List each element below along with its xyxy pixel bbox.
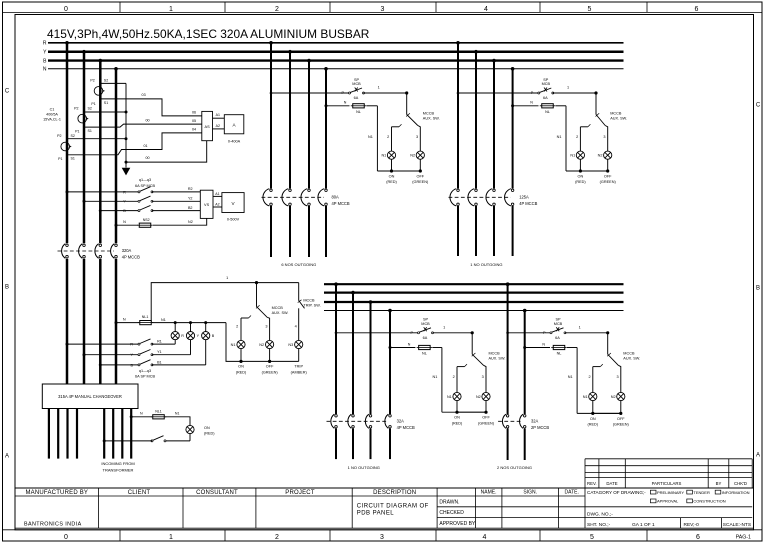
svg-text:CONSTRUCTION: CONSTRUCTION bbox=[693, 499, 725, 504]
svg-text:2: 2 bbox=[275, 534, 279, 541]
breaker pole bbox=[301, 189, 310, 206]
svg-text:0-500V: 0-500V bbox=[227, 218, 240, 222]
sht no row bbox=[680, 518, 682, 529]
N1 return vertical changeover bbox=[226, 323, 299, 362]
feeder verticals below 320A MCCB bbox=[66, 259, 69, 384]
feeder B vertical bbox=[99, 59, 103, 63]
svg-text:NL: NL bbox=[545, 110, 550, 114]
svg-text:0: 0 bbox=[64, 6, 68, 13]
svg-text:1: 1 bbox=[579, 325, 581, 329]
bottom band ticks bbox=[119, 530, 121, 541]
feeder N vertical bbox=[114, 67, 118, 71]
lamp N2 OFF GREEN changeover bbox=[266, 340, 274, 348]
top reference band line bbox=[3, 11, 763, 13]
svg-text:MCCB: MCCB bbox=[623, 351, 635, 355]
svg-text:(GREEN): (GREEN) bbox=[262, 370, 279, 374]
svg-text:DRAWN.: DRAWN. bbox=[439, 500, 459, 506]
svg-text:3: 3 bbox=[416, 135, 418, 139]
wire A2 bbox=[213, 128, 225, 130]
branch3 vertical 3 bbox=[369, 300, 373, 304]
breaker trip bar (dashed) bbox=[262, 196, 325, 198]
svg-text:PROJECT: PROJECT bbox=[285, 490, 315, 496]
svg-text:N2: N2 bbox=[476, 395, 481, 399]
lamp N2 OFF GREEN branch2 bbox=[604, 151, 612, 159]
svg-text:6 NOS OUTGOING: 6 NOS OUTGOING bbox=[281, 262, 316, 267]
svg-text:1: 1 bbox=[378, 86, 380, 90]
svg-text:Y2: Y2 bbox=[188, 197, 193, 201]
svg-text:N2: N2 bbox=[598, 154, 603, 158]
svg-text:6: 6 bbox=[696, 534, 700, 541]
wire A1 bbox=[213, 117, 225, 119]
svg-text:B: B bbox=[123, 209, 126, 213]
svg-text:P1: P1 bbox=[91, 102, 95, 106]
svg-text:DWG. NO.;-: DWG. NO.;- bbox=[587, 512, 613, 518]
svg-text:ON: ON bbox=[204, 426, 210, 430]
svg-text:N2: N2 bbox=[259, 343, 264, 347]
CT B S2 wire bbox=[100, 82, 126, 84]
breaker pole bbox=[111, 244, 118, 259]
svg-text:ON: ON bbox=[238, 365, 244, 369]
CT on B phase bbox=[94, 87, 104, 96]
aux contact 2 branch1 bbox=[392, 126, 400, 128]
branch2 Y vertical bbox=[474, 50, 478, 54]
branch2 N vertical bbox=[511, 67, 515, 71]
svg-text:C1: C1 bbox=[50, 108, 55, 112]
svg-text:C: C bbox=[5, 89, 10, 95]
svg-text:3: 3 bbox=[482, 375, 484, 379]
lamp N1 ON RED branch3 bbox=[453, 392, 461, 400]
branch1 verticals below MCCB bbox=[270, 206, 272, 257]
svg-text:A2: A2 bbox=[216, 124, 220, 128]
svg-text:1: 1 bbox=[567, 86, 569, 90]
wire 00 common to ammeter selector bbox=[125, 161, 128, 164]
wire 03/06 to ammeter selector bbox=[100, 99, 202, 116]
wire A1 to voltmeter bbox=[213, 195, 222, 197]
svg-text:BY: BY bbox=[716, 481, 722, 486]
fuse NL branch1 bbox=[351, 104, 367, 108]
svg-text:3: 3 bbox=[380, 534, 384, 541]
svg-text:NS2: NS2 bbox=[143, 218, 150, 222]
svg-text:APPROVED BY: APPROVED BY bbox=[439, 521, 476, 527]
svg-text:AS: AS bbox=[205, 125, 211, 129]
svg-text:6A: 6A bbox=[543, 96, 548, 100]
svg-text:NL1: NL1 bbox=[142, 315, 149, 319]
title block bottom line bbox=[15, 527, 754, 529]
lamp return wires branch1 bbox=[391, 159, 393, 171]
branch2 verticals below MCCB bbox=[457, 206, 459, 256]
svg-text:A: A bbox=[756, 453, 760, 459]
branch1 N vertical bbox=[324, 67, 328, 71]
voltmeter R wire and switch bbox=[66, 190, 69, 193]
svg-text:00: 00 bbox=[145, 156, 149, 160]
breaker pole bbox=[282, 189, 291, 206]
svg-text:CONSULTANT: CONSULTANT bbox=[196, 490, 238, 496]
svg-text:1: 1 bbox=[169, 6, 173, 13]
changeover lamp return wires bbox=[240, 349, 242, 362]
busbar N bbox=[48, 68, 624, 70]
R phase tap wire with switch bbox=[66, 343, 69, 346]
svg-text:MCCB: MCCB bbox=[610, 112, 622, 116]
svg-text:TRIP. SW.: TRIP. SW. bbox=[303, 304, 320, 308]
svg-text:NL: NL bbox=[422, 352, 427, 356]
lamp return wires branch2 bbox=[579, 159, 581, 171]
svg-text:N2: N2 bbox=[611, 395, 616, 399]
svg-text:CLIENT: CLIENT bbox=[128, 490, 151, 496]
svg-text:P2: P2 bbox=[90, 79, 94, 83]
aux contact 2 branch2 bbox=[580, 126, 588, 128]
aux contact 2 branch3 bbox=[457, 366, 465, 368]
315A 4P manual changeover box bbox=[42, 384, 138, 409]
svg-text:4P MCCB: 4P MCCB bbox=[122, 255, 140, 260]
breaker pole bbox=[385, 414, 391, 428]
branch3 verticals below MCCB bbox=[335, 429, 337, 460]
svg-text:(RED): (RED) bbox=[386, 180, 397, 184]
svg-text:5: 5 bbox=[588, 6, 592, 13]
branch3 vertical 2 bbox=[351, 291, 355, 295]
svg-text:06: 06 bbox=[192, 111, 196, 115]
branch1 Y vertical bbox=[288, 50, 292, 54]
drawn checked approved rows bbox=[437, 506, 752, 508]
svg-text:(GREEN): (GREEN) bbox=[412, 180, 429, 184]
feeder R vertical bbox=[65, 41, 69, 45]
svg-text:SIGN.: SIGN. bbox=[523, 490, 537, 496]
svg-text:VS: VS bbox=[204, 203, 210, 207]
wire fuse to return branch4 bbox=[567, 347, 577, 349]
svg-text:B: B bbox=[5, 285, 9, 291]
Y phase tap wire with switch bbox=[83, 353, 86, 356]
svg-text:PAG-1: PAG-1 bbox=[736, 535, 751, 541]
ammeter A bbox=[224, 115, 244, 134]
svg-text:BANTRONICS INDIA: BANTRONICS INDIA bbox=[24, 522, 82, 528]
svg-text:R1: R1 bbox=[157, 340, 162, 344]
breaker pole bbox=[505, 189, 514, 206]
title block top line bbox=[15, 487, 754, 489]
revision table bbox=[585, 458, 752, 460]
lamp N2 OFF GREEN branch4 bbox=[617, 392, 625, 400]
breaker pole bbox=[348, 414, 354, 428]
wire P phase tap branch2 bbox=[457, 92, 460, 95]
breaker trip bar (dashed) bbox=[327, 420, 389, 422]
wire 00/05 to ammeter selector bbox=[84, 124, 202, 127]
breaker pole bbox=[331, 414, 337, 428]
svg-text:6A SP MCB: 6A SP MCB bbox=[135, 184, 155, 188]
svg-text:0: 0 bbox=[64, 534, 68, 541]
svg-text:6: 6 bbox=[695, 6, 699, 13]
svg-text:NL1: NL1 bbox=[155, 409, 162, 413]
breaker pole bbox=[263, 189, 272, 206]
svg-text:125A: 125A bbox=[519, 195, 529, 200]
svg-text:1 NO OUTGOING: 1 NO OUTGOING bbox=[348, 465, 380, 470]
svg-text:N: N bbox=[43, 67, 47, 73]
svg-text:N2: N2 bbox=[188, 220, 193, 224]
wire N tap branch2 bbox=[511, 104, 514, 107]
svg-text:S2: S2 bbox=[71, 134, 75, 138]
svg-text:32A: 32A bbox=[397, 419, 405, 424]
svg-text:CHECKED: CHECKED bbox=[439, 510, 464, 516]
svg-text:4: 4 bbox=[484, 6, 488, 13]
svg-text:04: 04 bbox=[192, 128, 196, 132]
svg-text:2: 2 bbox=[576, 135, 578, 139]
svg-text:PARTICULARS: PARTICULARS bbox=[652, 481, 682, 486]
svg-text:DATE.: DATE. bbox=[565, 490, 579, 496]
svg-text:4P MCCB: 4P MCCB bbox=[519, 201, 537, 206]
svg-text:OFF: OFF bbox=[482, 416, 490, 420]
svg-text:AUX. SW.: AUX. SW. bbox=[489, 356, 506, 360]
svg-text:q1—q3: q1—q3 bbox=[139, 369, 151, 373]
svg-text:15VA,CL-1: 15VA,CL-1 bbox=[43, 118, 61, 122]
svg-text:CIRCUIT DIAGRAM OF: CIRCUIT DIAGRAM OF bbox=[357, 503, 429, 509]
second busbar line4 bbox=[324, 310, 624, 312]
bottom reference band line bbox=[3, 529, 763, 531]
svg-text:P1: P1 bbox=[58, 157, 62, 161]
changeover source verticals group1 bbox=[48, 409, 50, 459]
fuse NL branch3 bbox=[417, 345, 433, 349]
svg-text:N: N bbox=[123, 317, 126, 321]
svg-text:OFF: OFF bbox=[417, 175, 425, 179]
svg-text:(GREEN): (GREEN) bbox=[600, 180, 617, 184]
svg-text:2 NOS OUTGOING: 2 NOS OUTGOING bbox=[497, 465, 532, 470]
wire fuse to return branch3 bbox=[432, 347, 442, 349]
svg-text:32A: 32A bbox=[531, 419, 539, 424]
svg-text:N1: N1 bbox=[583, 395, 588, 399]
svg-text:1 NO OUTGOING: 1 NO OUTGOING bbox=[470, 262, 502, 267]
svg-text:N1: N1 bbox=[557, 135, 562, 139]
svg-text:C: C bbox=[756, 103, 761, 109]
svg-text:1: 1 bbox=[169, 534, 173, 541]
svg-text:R: R bbox=[181, 334, 184, 338]
breaker pole bbox=[520, 414, 526, 428]
svg-text:3: 3 bbox=[265, 325, 267, 329]
MCCB trip switch changeover bbox=[298, 283, 300, 301]
SP MCB switch branch4 bbox=[550, 327, 566, 334]
svg-text:N1: N1 bbox=[433, 375, 438, 379]
svg-text:2: 2 bbox=[236, 325, 238, 329]
branch4 vertical 1 bbox=[506, 282, 510, 286]
svg-text:AUX. SW.: AUX. SW. bbox=[610, 117, 627, 121]
breaker pole bbox=[95, 244, 102, 259]
svg-text:1: 1 bbox=[226, 276, 228, 280]
svg-text:A2: A2 bbox=[215, 202, 219, 206]
svg-text:MANUFACTURED BY: MANUFACTURED BY bbox=[25, 490, 88, 496]
svg-text:CHK'D: CHK'D bbox=[734, 481, 747, 486]
svg-text:P2: P2 bbox=[57, 134, 61, 138]
transformer pilot return wire with switch bbox=[189, 433, 191, 441]
lamp N2 OFF GREEN branch3 bbox=[482, 392, 490, 400]
svg-text:Y: Y bbox=[123, 200, 126, 204]
svg-text:(GREEN): (GREEN) bbox=[613, 423, 630, 427]
svg-text:APPROVAL: APPROVAL bbox=[657, 499, 679, 504]
svg-text:400/5A: 400/5A bbox=[46, 113, 58, 117]
svg-text:N: N bbox=[140, 412, 143, 416]
svg-text:4P MCCB: 4P MCCB bbox=[397, 425, 415, 430]
lamp return wires branch3 bbox=[456, 401, 458, 413]
svg-text:6A: 6A bbox=[423, 336, 428, 340]
svg-text:R2: R2 bbox=[188, 187, 193, 191]
voltmeter Y wire and switch bbox=[83, 200, 86, 203]
branch2 R vertical bbox=[456, 41, 460, 45]
svg-text:P1: P1 bbox=[75, 130, 79, 134]
svg-text:MCCB: MCCB bbox=[423, 112, 435, 116]
svg-text:MCB: MCB bbox=[542, 82, 551, 86]
svg-text:315A 4P MANUAL CHANGEOVER: 315A 4P MANUAL CHANGEOVER bbox=[58, 394, 122, 399]
breaker trip bar (dashed) bbox=[498, 420, 523, 422]
svg-text:AUX. SW.: AUX. SW. bbox=[623, 356, 640, 360]
MCCB aux switch branch1 bbox=[406, 93, 408, 115]
CT on R phase bbox=[61, 142, 71, 151]
svg-text:2: 2 bbox=[453, 375, 455, 379]
lamp N3 TRIP AMBER changeover bbox=[295, 340, 303, 348]
wire node 1 branch1 bbox=[364, 92, 407, 94]
phase indicating lamp B bbox=[204, 321, 207, 324]
second busbar line2 bbox=[324, 292, 624, 294]
phase indicating lamp Y bbox=[189, 321, 192, 324]
wire fuse to return branch2 bbox=[556, 105, 567, 107]
svg-text:NL: NL bbox=[557, 352, 562, 356]
voltmeter selector switch VS bbox=[200, 190, 213, 218]
svg-text:DESCRIPTION: DESCRIPTION bbox=[373, 490, 416, 496]
svg-text:MCB: MCB bbox=[352, 82, 361, 86]
voltmeter B wire and switch bbox=[99, 209, 102, 212]
svg-text:4: 4 bbox=[483, 534, 487, 541]
breaker pole bbox=[318, 189, 327, 206]
svg-text:N3: N3 bbox=[288, 343, 293, 347]
svg-text:Y1: Y1 bbox=[157, 350, 162, 354]
svg-text:SCALE:-NTS: SCALE:-NTS bbox=[723, 522, 751, 528]
wire node 1 branch3 bbox=[433, 332, 473, 334]
second busbar line1 bbox=[324, 283, 624, 285]
voltmeter V bbox=[222, 193, 244, 213]
svg-text:(RED): (RED) bbox=[236, 370, 247, 374]
MCCB aux switch changeover bbox=[256, 283, 258, 307]
svg-text:INFORMATION: INFORMATION bbox=[722, 490, 750, 495]
svg-text:B2: B2 bbox=[188, 206, 193, 210]
svg-text:AUX. SW.: AUX. SW. bbox=[272, 311, 289, 315]
svg-text:OFF: OFF bbox=[617, 417, 625, 421]
breaker pole bbox=[365, 414, 371, 428]
svg-text:N1: N1 bbox=[231, 343, 236, 347]
wire P phase tap branch1 bbox=[270, 92, 273, 95]
CT common vertical bbox=[125, 83, 127, 167]
svg-text:S2: S2 bbox=[104, 79, 108, 83]
breaker trip bar (dashed) bbox=[58, 250, 115, 252]
svg-text:N: N bbox=[344, 101, 347, 105]
svg-text:N: N bbox=[123, 220, 126, 224]
breaker pole bbox=[468, 189, 477, 206]
B phase tap wire with switch bbox=[99, 363, 102, 366]
svg-text:05: 05 bbox=[192, 119, 196, 123]
MCCB aux switch branch3 bbox=[471, 333, 473, 355]
busbar Y bbox=[48, 50, 624, 53]
svg-text:N: N bbox=[408, 342, 411, 346]
CT R S2 wire bbox=[67, 138, 126, 140]
svg-text:3: 3 bbox=[381, 6, 385, 13]
lamp N1 ON RED branch4 bbox=[589, 392, 597, 400]
branch2 B vertical bbox=[492, 59, 496, 63]
wire P phase tap branch3 bbox=[335, 332, 338, 335]
svg-text:(RED): (RED) bbox=[204, 432, 215, 436]
svg-text:ON: ON bbox=[578, 175, 584, 179]
branch1 R vertical bbox=[269, 41, 273, 45]
svg-text:B: B bbox=[756, 286, 760, 292]
CT earthing arrow bbox=[122, 168, 131, 176]
svg-text:OFF: OFF bbox=[266, 365, 274, 369]
svg-text:80A: 80A bbox=[332, 195, 340, 200]
aux contact 2 changeover bbox=[241, 317, 249, 319]
svg-text:N: N bbox=[530, 101, 533, 105]
SP MCB switch branch2 bbox=[538, 88, 554, 95]
SP MCB switch branch1 bbox=[349, 88, 365, 95]
wire N tap branch1 bbox=[325, 104, 328, 107]
svg-text:TRIP: TRIP bbox=[294, 365, 303, 369]
branch1 B vertical bbox=[307, 59, 311, 63]
busbar R bbox=[48, 42, 624, 44]
wire node 1 branch4 bbox=[565, 332, 608, 334]
ammeter selector switch AS bbox=[202, 111, 213, 140]
svg-text:S1: S1 bbox=[71, 157, 75, 161]
svg-text:PRELIMINARY: PRELIMINARY bbox=[657, 490, 684, 495]
svg-text:P: P bbox=[531, 91, 534, 95]
svg-text:TRANSFORMER: TRANSFORMER bbox=[103, 468, 134, 473]
svg-text:NAME.: NAME. bbox=[481, 490, 497, 496]
top band ticks bbox=[119, 2, 121, 12]
svg-text:6A SP MCB: 6A SP MCB bbox=[135, 375, 155, 379]
wire A2 to voltmeter bbox=[213, 206, 222, 208]
N1 bus wire changeover bbox=[152, 322, 226, 324]
wire N tap branch3 bbox=[389, 346, 392, 349]
svg-text:2: 2 bbox=[588, 375, 590, 379]
lamp return wires branch4 bbox=[592, 401, 594, 414]
feeder Y vertical bbox=[82, 50, 86, 54]
branch3 vertical 4 bbox=[388, 309, 392, 313]
svg-text:A1: A1 bbox=[216, 113, 220, 117]
transformer pilot lamp ON RED bbox=[186, 425, 194, 433]
svg-text:00: 00 bbox=[145, 119, 149, 123]
branch3 vertical 1 bbox=[334, 282, 338, 286]
svg-text:MCCB: MCCB bbox=[303, 299, 315, 303]
svg-text:2P MCCB: 2P MCCB bbox=[531, 425, 549, 430]
svg-text:03: 03 bbox=[142, 93, 146, 97]
breaker pole bbox=[79, 244, 86, 259]
wire N tap branch4 bbox=[523, 346, 526, 349]
aux contact 2 branch4 bbox=[593, 366, 601, 368]
node 1 wire changeover bbox=[151, 283, 299, 323]
svg-text:N1: N1 bbox=[447, 395, 452, 399]
svg-text:N1: N1 bbox=[568, 375, 573, 379]
svg-text:S1: S1 bbox=[104, 101, 108, 105]
svg-text:MCB: MCB bbox=[421, 322, 430, 326]
svg-text:OFF: OFF bbox=[604, 175, 612, 179]
svg-text:0-400A: 0-400A bbox=[228, 140, 241, 144]
wire P phase tap branch4 bbox=[506, 332, 509, 335]
svg-text:ON: ON bbox=[389, 175, 395, 179]
svg-text:(RED): (RED) bbox=[588, 423, 599, 427]
svg-text:MCB: MCB bbox=[554, 322, 563, 326]
svg-text:DATE: DATE bbox=[606, 481, 617, 486]
wire node 1 branch2 bbox=[553, 92, 596, 94]
busbar B bbox=[48, 59, 624, 61]
breaker pole bbox=[502, 414, 508, 428]
svg-text:GA 1 OF 1: GA 1 OF 1 bbox=[632, 522, 655, 528]
lamp N1 ON RED branch2 bbox=[576, 151, 584, 159]
svg-text:01: 01 bbox=[143, 144, 147, 148]
svg-text:5: 5 bbox=[590, 534, 594, 541]
transformer pilot fuse NL1 wire bbox=[130, 415, 133, 418]
svg-text:ON: ON bbox=[590, 417, 596, 421]
svg-text:R: R bbox=[123, 190, 126, 194]
svg-text:A: A bbox=[5, 454, 9, 460]
svg-text:TENDER: TENDER bbox=[693, 490, 710, 495]
svg-text:6A: 6A bbox=[354, 96, 359, 100]
